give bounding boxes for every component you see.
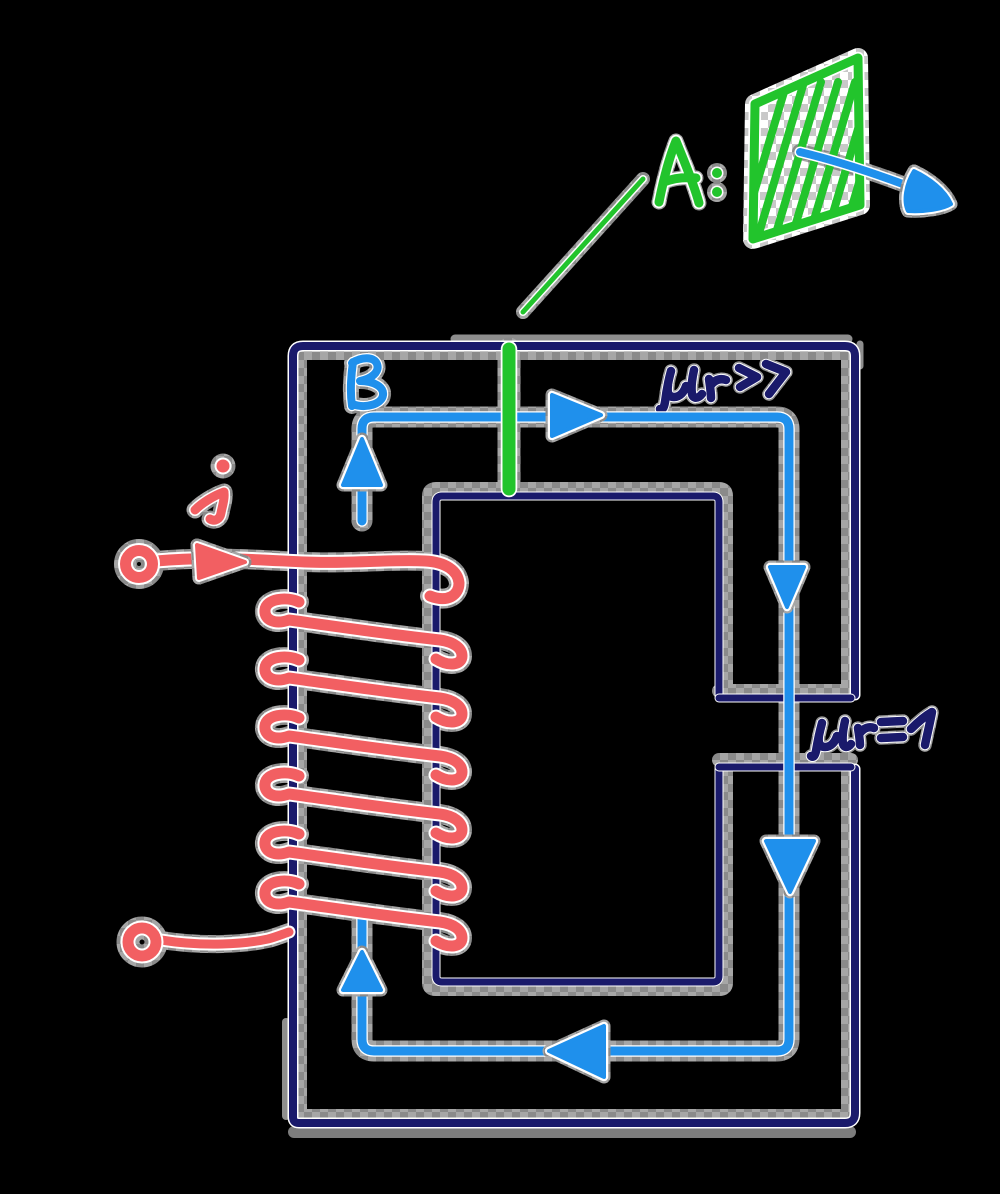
flux arrowhead right (top run) [552,395,601,436]
shadow below bottom edge [294,1126,850,1138]
current arrow [197,545,245,578]
label i [195,492,224,520]
coil turn 6 [265,881,462,946]
halo core inner [429,489,726,989]
halo plane arrow [800,152,916,189]
flux arrowhead up (below B) [343,439,381,485]
flux arrowhead down 2 (air gap) [766,841,814,892]
colon dots [711,167,724,180]
halo coil [156,559,459,599]
coil turn 5 [265,831,462,896]
flux arrowhead left (bottom run) [549,1026,604,1077]
label mu_r = 1 [811,721,851,757]
halo tick [498,349,521,489]
halo A [659,141,699,203]
normal arrow through plane [800,152,916,189]
shadow above top edge (right part) [455,335,848,344]
terminal top [126,551,153,578]
halo core outer [300,353,848,1116]
flux arrowhead down 1 (right leg) [770,567,804,607]
coil turn 2 [265,657,462,722]
halo labels navy [660,370,702,410]
halo flux loop [362,417,789,1051]
flux arrowhead up (lower left) [343,952,381,990]
coil turn 1 [265,599,462,664]
air gap bottom edge [719,763,851,772]
halo gap edges [719,684,851,698]
area plane outline [753,58,860,239]
halo pointer [523,179,643,312]
coil top lead [156,559,459,599]
halo plane [753,58,860,239]
coil turn 4 [265,773,462,838]
cross-section tick [501,349,518,489]
core inner outline [436,496,719,982]
shadow outside left edge (lower part) [282,1022,290,1116]
coil bottom lead [161,932,289,944]
flux loop [362,417,789,1051]
halo B [351,358,383,406]
pointer line to A [523,179,643,312]
terminal bottom [128,928,156,956]
label A [659,141,699,203]
label mu_r much greater [660,370,702,410]
label B [351,358,383,406]
core outer outline [293,346,855,1123]
coil turn 3 [265,715,462,780]
air gap top edge [719,694,851,703]
